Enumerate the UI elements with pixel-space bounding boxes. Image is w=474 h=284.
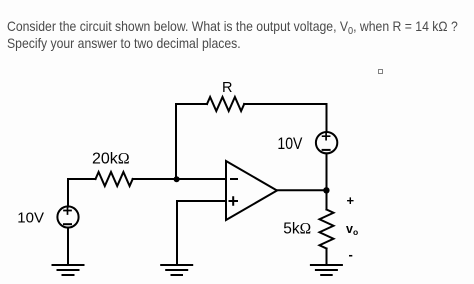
wire: inverting input horizontal from V1 top to op-amp: [68, 178, 96, 180]
wire: top left horizontal to R: [176, 103, 207, 105]
V1 plus sign: [64, 207, 71, 214]
svg-text:20kΩ: 20kΩ: [92, 150, 130, 167]
svg-text:+: +: [347, 193, 355, 208]
wire: non-inverting input horizontal: [177, 200, 226, 202]
ground G2: [161, 265, 192, 275]
ground G3: [311, 265, 342, 275]
wire: 5k bottom to ground: [326, 249, 328, 266]
wire: 20k to op-amp inverting input: [133, 178, 226, 180]
node A junction dot (inverting input): [174, 176, 180, 182]
wire: V1 bottom to ground: [67, 228, 69, 265]
wire: right vertical down to V2: [326, 104, 328, 132]
V2 minus sign: [323, 149, 330, 151]
svg-text:R: R: [222, 80, 232, 96]
wire: V2 bottom to output node: [326, 153, 328, 190]
svg-text:10V: 10V: [17, 210, 44, 227]
ground G1: [53, 265, 84, 275]
wire: left input vertical down to V1: [67, 179, 69, 207]
resistor R feedback: [207, 97, 244, 111]
resistor R2 20k ohm: [96, 172, 133, 186]
wire: op-amp output: [277, 189, 327, 191]
voltage source V2 10V circle: [316, 132, 337, 153]
V1 minus sign: [64, 223, 71, 225]
voltage source V1 10V circle: [57, 206, 78, 227]
resistor R3 5k ohm vertical: [320, 210, 334, 249]
wire: feedback vertical: [175, 104, 177, 179]
svg-text:10V: 10V: [277, 135, 302, 153]
op-amp minus input sign: [231, 178, 237, 180]
svg-text:vo: vo: [346, 222, 358, 237]
wire: top right horizontal from R to right branch: [244, 103, 326, 105]
small grey square artifact: [378, 69, 383, 74]
op-amp plus input sign: [230, 197, 238, 205]
svg-text:5kΩ: 5kΩ: [283, 221, 311, 238]
wire: non-inverting vertical to ground: [176, 201, 178, 265]
op-amp U1 triangle: [226, 161, 277, 220]
V2 plus sign: [323, 133, 330, 140]
wire: output node down to 5k: [326, 190, 328, 209]
node B junction dot (output): [323, 187, 329, 193]
svg-text:-: -: [349, 247, 353, 262]
question text line 1: [7, 18, 474, 51]
